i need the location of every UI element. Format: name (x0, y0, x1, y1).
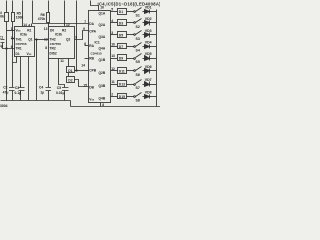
svg-text:4: 4 (111, 19, 113, 23)
wire IC1 pin row 1 (111, 11, 118, 13)
wire VDD pin14 of IC3a (22, 1, 24, 27)
wire C3 leads (20, 85, 22, 95)
wire top feed to CPB node (76, 1, 78, 71)
switch S7 pole (134, 84, 136, 86)
wire switch to diode row 8 (143, 96, 145, 98)
junction dot (12, 38, 13, 39)
svg-text:S6: S6 (136, 73, 140, 77)
wire diode to rail row 2 (150, 22, 157, 24)
svg-text:IC1: IC1 (95, 40, 100, 44)
svg-text:9: 9 (83, 27, 85, 31)
switch S5 pole (134, 58, 136, 60)
diode VD6 (145, 69, 150, 74)
svg-text:13: 13 (44, 27, 48, 31)
svg-text:VD3: VD3 (145, 29, 152, 33)
diode VD5 cathode bar (149, 56, 151, 61)
switch S1 arm (136, 8, 142, 12)
svg-text:Q3A: Q3A (99, 35, 106, 39)
wire R4 bottom to pin (6, 22, 8, 101)
svg-text:C2: C2 (3, 85, 7, 89)
svg-text:Q4B: Q4B (99, 96, 106, 100)
svg-text:Q3B: Q3B (99, 84, 106, 88)
wire diode to rail row 7 (150, 84, 157, 86)
wire pin stub TH1 (7, 30, 15, 32)
svg-text:VD6: VD6 (145, 65, 152, 69)
svg-text:C4: C4 (39, 85, 43, 89)
svg-text:Q2A: Q2A (99, 23, 106, 27)
wire box to switch row 2 (127, 22, 134, 24)
ground rail step (70, 101, 72, 107)
diode box D1 (118, 9, 127, 15)
svg-text:2: 2 (11, 36, 13, 40)
capacitor C5 plates (62, 88, 69, 91)
diode box D9 (118, 55, 127, 61)
svg-text:CD7556: CD7556 (50, 42, 61, 46)
svg-text:Q1A: Q1A (99, 11, 106, 15)
diode box D2 (67, 77, 75, 83)
svg-text:CD7556: CD7556 (16, 42, 27, 46)
svg-text:IC4,IC5(D1~D16)(LED4008A): IC4,IC5(D1~D16)(LED4008A) (98, 1, 161, 6)
op IC1 shift register box (89, 11, 111, 103)
diode box D13 (118, 81, 127, 87)
wire box to switch row 3 (127, 34, 134, 36)
ground rail left (1, 100, 71, 102)
svg-text:D1: D1 (68, 69, 72, 73)
svg-text:12: 12 (44, 37, 48, 41)
op IC3b timer box (49, 27, 75, 59)
IC3a bottom pin left lower (20, 91, 22, 101)
svg-text:CD4015: CD4015 (91, 52, 102, 56)
svg-text:D11: D11 (119, 69, 125, 73)
switch S8 arm (136, 93, 142, 97)
wire R6 to IC3b (48, 23, 50, 27)
svg-text:C3: C3 (15, 86, 19, 90)
svg-text:S2: S2 (136, 25, 140, 29)
diode VD1 (145, 10, 150, 14)
svg-text:D1: D1 (16, 52, 20, 56)
diode VD2 cathode bar (149, 21, 151, 26)
wire DA line (33, 23, 89, 25)
ground rail right (71, 106, 161, 108)
svg-text:11: 11 (60, 59, 64, 63)
diode VD8 cathode bar (149, 95, 151, 99)
svg-text:D1: D1 (119, 10, 123, 14)
wire switch to diode row 6 (143, 70, 145, 72)
IC1 pin 6 stub (85, 45, 89, 47)
IC3a corner jog (13, 57, 17, 63)
svg-text:TH1: TH1 (16, 37, 22, 41)
switch S3 arm (136, 31, 142, 35)
svg-text:R1: R1 (27, 29, 31, 33)
capacitor C3 plates (19, 88, 25, 91)
IC1 pin 8 gnd (100, 103, 102, 107)
switch S7 arm (136, 80, 142, 84)
svg-text:6: 6 (11, 45, 13, 49)
wire between boxes (68, 73, 70, 77)
wire IC3b Q2 to CPA (75, 31, 89, 40)
svg-text:C5: C5 (57, 86, 61, 90)
svg-text:D3: D3 (119, 21, 123, 25)
svg-text:5: 5 (111, 8, 113, 12)
svg-text:13: 13 (111, 54, 115, 58)
svg-text:VD2: VD2 (145, 17, 152, 21)
svg-text:S1: S1 (136, 13, 140, 17)
svg-text:470k: 470k (38, 17, 46, 21)
op IC3a timer box (15, 27, 35, 57)
svg-text:S7: S7 (136, 86, 140, 90)
svg-text:3004: 3004 (0, 104, 8, 108)
wire IC1 pin row 6 (111, 70, 118, 72)
wire diode to rail row 8 (150, 96, 157, 98)
svg-text:9: 9 (75, 36, 77, 40)
svg-text:VD8: VD8 (145, 91, 152, 95)
diode VD7 (145, 82, 150, 87)
diode VD3 (145, 33, 150, 38)
wire diode to rail row 5 (150, 58, 157, 60)
svg-text:0.01μ: 0.01μ (56, 91, 65, 95)
svg-text:1μ: 1μ (0, 44, 3, 48)
wire D1 box to CPB (75, 70, 89, 72)
diode box D15 (118, 94, 127, 99)
svg-text:Q2B: Q2B (99, 71, 106, 75)
wire pin stub y39 (13, 38, 15, 40)
wire R5 line below cap (12, 91, 14, 101)
svg-text:TH2: TH2 (50, 38, 56, 42)
svg-text:10: 10 (111, 43, 115, 47)
wire top feed to R4 (6, 1, 8, 13)
diode VD5 (145, 56, 150, 61)
diode box D5 (118, 32, 127, 38)
wire D2 box to DB (75, 80, 89, 87)
svg-text:DB: DB (89, 85, 94, 89)
svg-text:CPB: CPB (89, 69, 97, 73)
svg-text:D13: D13 (119, 82, 125, 86)
resistor R4 (5, 13, 9, 22)
svg-text:300k: 300k (0, 15, 4, 19)
diode box D7 (118, 44, 127, 49)
svg-text:2: 2 (111, 93, 113, 97)
switch S8 pole (134, 96, 136, 98)
diode VD4 (145, 45, 150, 49)
wire box to switch row 8 (127, 96, 134, 98)
svg-text:11: 11 (111, 80, 115, 84)
wire switch to diode row 7 (143, 84, 145, 86)
junction dot Q1 (36, 39, 37, 40)
svg-text:47μ: 47μ (3, 91, 9, 95)
svg-text:VD4: VD4 (145, 41, 152, 45)
svg-text:S8: S8 (136, 98, 140, 102)
svg-text:D0: D0 (50, 29, 54, 33)
right supply rail (156, 10, 158, 107)
capacitor C1 plates (1, 40, 5, 43)
wire box to switch row 1 (127, 11, 134, 13)
svg-text:D9: D9 (119, 56, 123, 60)
wire top feed to DA line (32, 1, 34, 24)
junction dot CPB (76, 70, 77, 71)
svg-text:VD5: VD5 (145, 52, 152, 56)
svg-text:D7: D7 (119, 45, 123, 49)
IC1 pin 14 stub (85, 58, 89, 60)
wire IC3b to D box (68, 59, 70, 67)
svg-text:R2: R2 (62, 29, 66, 33)
svg-text:DA: DA (89, 22, 94, 26)
wire box to switch row 6 (127, 70, 134, 72)
svg-text:TR1: TR1 (16, 46, 22, 50)
svg-text:TR2: TR2 (50, 47, 56, 51)
svg-text:3: 3 (111, 31, 113, 35)
wire box to switch row 7 (127, 84, 134, 86)
svg-text:14: 14 (81, 63, 85, 67)
wire IC1 pin row 7 (111, 84, 118, 86)
switch S4 arm (136, 43, 142, 47)
wire switch to diode row 3 (143, 34, 145, 36)
wire C4 line (48, 59, 50, 101)
svg-text:DIS2: DIS2 (50, 52, 57, 56)
svg-text:8: 8 (45, 46, 47, 50)
svg-text:Q2: Q2 (66, 38, 71, 42)
svg-text:15: 15 (83, 83, 87, 87)
wire diode to rail row 1 (150, 11, 157, 13)
svg-text:12: 12 (111, 67, 115, 71)
diode VD8 (145, 95, 150, 99)
wire switch to diode row 2 (143, 22, 145, 24)
svg-text:D15: D15 (119, 95, 125, 99)
svg-text:S4: S4 (136, 48, 140, 52)
wire diode to rail row 6 (150, 70, 157, 72)
switch S1 pole (134, 11, 136, 13)
wire IC1 pin row 3 (111, 34, 118, 36)
wire box to switch row 5 (127, 58, 134, 60)
wire R5 bottom down (12, 22, 14, 88)
wire top feed to R6 (48, 1, 50, 13)
svg-text:Q1B: Q1B (99, 58, 106, 62)
switch S3 pole (134, 34, 136, 36)
IC3a bottom pin left (20, 57, 22, 88)
resistor R5 (12, 13, 15, 22)
diode VD3 cathode bar (149, 33, 151, 38)
diode box D11 (118, 68, 127, 74)
svg-text:6: 6 (84, 42, 86, 46)
capacitor C2 plates (9, 88, 15, 91)
resistor R6 (47, 13, 50, 23)
svg-text:RA: RA (89, 44, 94, 48)
wire diode to rail row 4 (150, 46, 157, 48)
svg-text:CPA: CPA (89, 29, 96, 33)
IC3b pin 11 lower (64, 91, 66, 101)
svg-text:1: 1 (11, 27, 13, 31)
svg-text:D5: D5 (119, 33, 123, 37)
wire IC1 pin row 2 (111, 22, 118, 24)
wire IC1 pin row 4 (111, 46, 118, 48)
svg-text:1μ: 1μ (40, 91, 44, 95)
diode VD4 cathode bar (149, 45, 151, 49)
IC3a reset pin stub (31, 24, 33, 27)
svg-text:100k: 100k (16, 15, 24, 19)
wire IC1 pin row 8 (111, 96, 118, 98)
diode box D1 (67, 67, 75, 73)
diode VD1 cathode bar (149, 10, 151, 14)
switch S5 arm (136, 54, 142, 58)
svg-text:Q4A: Q4A (99, 46, 106, 50)
capacitor C4 plates (46, 88, 52, 91)
svg-text:Q1: Q1 (28, 37, 33, 41)
svg-text:VD7: VD7 (145, 78, 152, 82)
svg-text:S5: S5 (136, 60, 140, 64)
svg-text:C1: C1 (0, 36, 3, 40)
svg-text:RB: RB (89, 56, 94, 60)
wire switch to diode row 5 (143, 58, 145, 60)
wire Q1 drop (36, 40, 38, 101)
diode VD7 cathode bar (149, 82, 151, 87)
diode VD2 (145, 21, 150, 26)
IC3a bottom pin right (28, 57, 30, 101)
wire diode to rail row 3 (150, 34, 157, 36)
svg-text:D2: D2 (68, 79, 72, 83)
wire IC1 pin row 5 (111, 58, 118, 60)
IC3b bottom pin 11 (59, 59, 65, 88)
capacitor C1 lead (3, 43, 15, 49)
switch S4 pole (134, 46, 136, 48)
switch S2 arm (136, 19, 142, 23)
svg-text:IC3a: IC3a (20, 32, 27, 36)
svg-text:S3: S3 (136, 37, 140, 41)
diode VD6 cathode bar (149, 69, 151, 74)
svg-text:IC3b: IC3b (55, 33, 62, 37)
wire switch to diode row 1 (143, 11, 145, 13)
wire IC3a Q1 out (35, 39, 49, 41)
junction dot (6, 48, 7, 49)
diode box D3 (118, 20, 127, 26)
switch S2 pole (134, 22, 136, 24)
wire pin10 of IC3b (64, 1, 66, 27)
wire switch to diode row 4 (143, 46, 145, 48)
switch S6 arm (136, 67, 142, 71)
wire VDD pin16 of IC1 (91, 1, 99, 11)
wire box to switch row 4 (127, 46, 134, 48)
wire top feed to R5 (12, 1, 14, 13)
switch S6 pole (134, 70, 136, 72)
